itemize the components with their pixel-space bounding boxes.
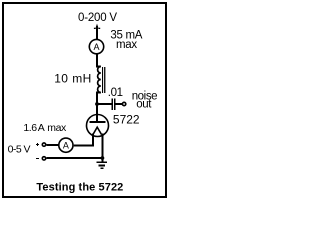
capacitor C1 .01 xyxy=(112,98,115,110)
minus sign xyxy=(36,158,39,159)
terminal noise out xyxy=(122,102,125,105)
wire capacitor to output terminal xyxy=(116,103,122,105)
wire filament left leg to A2 xyxy=(74,134,93,146)
svg-text:0-5 V: 0-5 V xyxy=(8,144,31,156)
wire arrow to 0-200V xyxy=(94,24,100,40)
svg-text:A: A xyxy=(93,42,99,52)
filament xyxy=(93,127,102,134)
wire node to tube plate xyxy=(96,104,98,122)
svg-text:5722: 5722 xyxy=(113,113,140,127)
wire filament right leg to ground rail xyxy=(102,134,104,159)
wire A1 to inductor xyxy=(97,54,101,67)
svg-text:max: max xyxy=(116,39,137,51)
wire node to capacitor xyxy=(97,103,112,105)
plus sign xyxy=(36,143,39,146)
border frame xyxy=(3,3,166,197)
tube V1 5722 noise diode xyxy=(87,115,109,137)
wire A2 to plus terminal xyxy=(46,144,58,146)
svg-text:Testing the 5722: Testing the 5722 xyxy=(36,182,123,194)
svg-text:1.6: 1.6 xyxy=(23,122,37,134)
svg-text:A: A xyxy=(63,141,69,151)
svg-text:.01: .01 xyxy=(108,87,123,99)
ammeter A1 (35 mA) xyxy=(89,39,103,53)
svg-text:out: out xyxy=(136,99,152,111)
terminal plus xyxy=(42,143,45,146)
svg-text:A: A xyxy=(38,122,45,134)
wire ground rail from minus terminal xyxy=(46,157,103,159)
node junction dot xyxy=(95,102,99,106)
ground xyxy=(96,158,107,168)
svg-text:0-200 V: 0-200 V xyxy=(78,12,117,24)
plate xyxy=(90,121,106,123)
svg-text:10 mH: 10 mH xyxy=(54,71,92,85)
inductor L1 10 mH xyxy=(98,67,105,94)
svg-text:max: max xyxy=(47,122,67,134)
wire inductor to node xyxy=(97,93,101,105)
node rail-ground junction dot xyxy=(101,156,105,160)
ammeter A2 (1.6 A) xyxy=(59,138,73,152)
terminal minus xyxy=(42,157,45,160)
